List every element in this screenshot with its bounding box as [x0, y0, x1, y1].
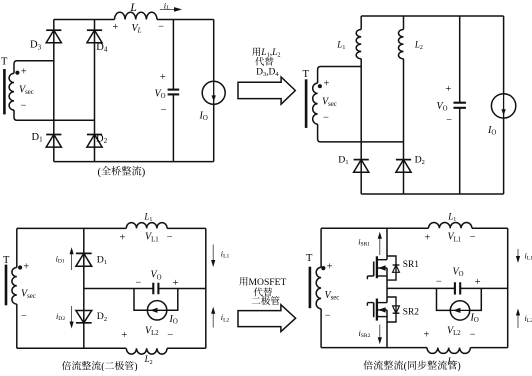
svg-text:+: +	[423, 330, 429, 341]
inductor L1 (TR)	[356, 30, 361, 59]
arrow iSR2	[378, 325, 382, 345]
arrow iSR1	[378, 232, 382, 255]
TR transformer core	[305, 79, 308, 128]
TR polarity dot	[318, 84, 322, 88]
BL top rail left	[17, 227, 127, 229]
current source Io (BR)	[450, 301, 469, 320]
svg-text:): )	[134, 362, 137, 372]
TL right bridge leg	[94, 20, 96, 162]
TL transformer core	[3, 69, 6, 114]
TL polarity dot	[15, 71, 19, 75]
arrow iL2 (BR)	[516, 309, 520, 329]
BL mid wire left	[84, 288, 154, 290]
current source Io (TR)	[491, 94, 515, 118]
TR top rail	[361, 15, 503, 17]
svg-text:(: (	[98, 167, 102, 178]
svg-text:+: +	[119, 232, 125, 243]
BL transformer leg bottom	[16, 304, 18, 348]
arrow iL2 (BL)	[211, 307, 215, 328]
BR transformer leg top	[320, 228, 322, 267]
TL top rail with inductor L	[54, 19, 115, 21]
BL middle leg	[83, 228, 85, 348]
svg-text:L: L	[129, 2, 136, 14]
svg-text:): )	[142, 167, 146, 178]
inductor L	[115, 12, 158, 19]
diode D2	[87, 135, 102, 148]
capacitor Vo (BL)	[153, 283, 158, 295]
TR L1 leg bottom	[360, 59, 362, 194]
svg-text:−: −	[21, 311, 27, 322]
BR main leg mid	[386, 268, 388, 303]
BR main leg top	[386, 228, 388, 259]
capacitor Vo (TR)	[453, 103, 466, 108]
svg-text:−: −	[323, 113, 329, 124]
TL cap branch bottom	[172, 94, 174, 161]
TR bottom rail	[361, 193, 503, 195]
arrow iL1 (BL)	[211, 245, 215, 268]
BR polarity dot	[321, 266, 325, 270]
svg-text:−: −	[325, 311, 331, 322]
BR right rail	[507, 228, 509, 347]
arrow2 text line1 yong MOSFET	[239, 277, 286, 288]
BR top rail left	[321, 227, 428, 229]
BL bottom rail left	[17, 347, 127, 349]
TR source branch bottom	[503, 118, 505, 194]
arrow1 text line2 daiti	[255, 57, 273, 66]
inductor L2 (BL)	[126, 348, 167, 354]
BL polarity dot	[18, 265, 22, 269]
TL transformer top lead	[14, 61, 54, 74]
current source Io (BL)	[147, 301, 166, 320]
BR transformer core	[309, 267, 312, 309]
svg-text:MOSFET: MOSFET	[249, 277, 287, 288]
svg-text:SR2: SR2	[403, 308, 419, 318]
svg-text:−: −	[470, 330, 476, 341]
transistor SR1	[367, 256, 399, 280]
svg-text:−: −	[470, 232, 476, 243]
svg-text:−: −	[135, 277, 141, 288]
inductor L2 (BR)	[427, 348, 470, 354]
capacitor Vo (TL)	[168, 90, 180, 95]
TR transformer top lead	[318, 67, 362, 84]
svg-text:−: −	[161, 105, 167, 116]
svg-text:T: T	[303, 69, 310, 80]
arrow iL	[160, 7, 182, 12]
TL source branch bottom	[213, 104, 215, 161]
svg-text:+: +	[160, 72, 166, 83]
arrow2 text line2 daiti	[254, 288, 272, 297]
TL left bridge leg	[53, 20, 55, 162]
svg-text:+: +	[23, 262, 29, 273]
svg-text:−: −	[158, 21, 164, 32]
svg-text:T: T	[306, 253, 313, 264]
TL cap branch top	[172, 20, 174, 90]
svg-text:+: +	[121, 330, 127, 341]
BR top rail right	[472, 227, 508, 229]
TL source branch top	[213, 20, 215, 82]
caption erjiguan	[105, 361, 134, 370]
TL top rail right segment	[157, 19, 214, 21]
BL load loop left	[134, 289, 147, 311]
arrow iL1 (BR)	[516, 249, 520, 263]
TL bottom rail	[54, 161, 214, 163]
svg-text:SR1: SR1	[403, 260, 419, 270]
arrow2 text line3 erjiguan	[252, 296, 280, 305]
svg-text:+: +	[21, 66, 27, 77]
diode D2 (TR)	[396, 160, 411, 173]
TR cap branch bottom	[459, 108, 461, 194]
BR mid wire left	[387, 287, 455, 289]
capacitor Vo (BR)	[455, 282, 460, 294]
BR transformer winding	[316, 267, 321, 309]
caption quanqiao zhengliu	[101, 166, 141, 176]
svg-text:+: +	[112, 22, 118, 33]
BR transformer leg bottom	[320, 309, 322, 348]
TL transformer winding	[9, 73, 14, 110]
svg-text:+: +	[424, 233, 430, 244]
BL mid wire right	[158, 288, 205, 290]
BL right rail	[205, 228, 207, 348]
BL top rail right	[167, 227, 206, 229]
BR load loop left	[437, 288, 451, 310]
svg-text:−: −	[436, 276, 442, 287]
diode D4	[87, 30, 102, 43]
svg-text:+: +	[475, 277, 481, 288]
diode D1	[46, 135, 61, 148]
BL transformer leg top	[16, 228, 18, 267]
svg-text:+: +	[173, 278, 179, 289]
caption tongbu zhengliuguan	[408, 360, 457, 369]
BL transformer core	[5, 265, 8, 306]
svg-text:+: +	[324, 79, 330, 90]
TR transformer winding	[313, 83, 318, 124]
TR L1 leg top	[360, 16, 362, 30]
svg-text:−: −	[446, 115, 452, 126]
TL transformer bottom lead	[14, 110, 95, 120]
diode D3	[46, 30, 61, 43]
BR load loop right	[470, 288, 482, 310]
inductor L1 (BL)	[126, 223, 167, 229]
diode D2 (BL)	[76, 311, 92, 323]
svg-text:+: +	[327, 262, 333, 273]
transistor SR2	[367, 297, 399, 322]
svg-text:−: −	[167, 330, 173, 341]
svg-text:−: −	[167, 232, 173, 243]
svg-text:T: T	[3, 255, 10, 266]
current source Io (TL)	[202, 81, 225, 104]
BL load loop right	[167, 289, 178, 311]
svg-text:T: T	[1, 57, 8, 68]
TR source branch top	[503, 16, 505, 94]
BR mid wire right	[460, 287, 508, 289]
BR bottom rail right	[470, 347, 507, 349]
TR transformer bottom lead	[318, 124, 404, 142]
caption beiliu zhengliu (BR)	[363, 360, 403, 369]
BR bottom rail left	[321, 347, 427, 349]
svg-text:−: −	[21, 101, 27, 112]
BL transformer winding	[12, 268, 17, 305]
arrow iD1	[70, 247, 74, 270]
inductor L1 (BR)	[429, 223, 472, 229]
BL bottom rail right	[167, 347, 206, 349]
TR L2 leg top	[403, 16, 405, 30]
inductor L2 (TR)	[399, 30, 404, 59]
diode D1 (TR)	[354, 160, 369, 173]
TR L2 leg bottom	[403, 59, 405, 194]
diode D1 (BL)	[76, 253, 92, 266]
block arrow 2	[238, 305, 296, 332]
arrow1 text line1 yong L1,L2	[252, 47, 280, 58]
svg-text:): )	[457, 361, 460, 371]
arrow iD2	[70, 306, 74, 329]
block arrow 1	[238, 77, 295, 104]
svg-text:+: +	[445, 84, 451, 95]
TR cap branch top	[459, 16, 461, 103]
BR main leg bottom	[386, 310, 388, 348]
caption beiliu zhengliu (BL)	[62, 361, 101, 370]
